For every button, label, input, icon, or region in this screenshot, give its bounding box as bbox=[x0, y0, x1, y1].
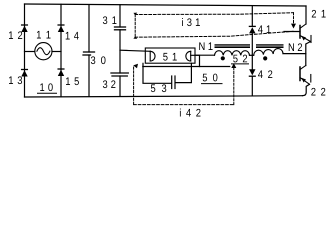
lamp 51 envelope bbox=[145, 48, 195, 63]
diode 13 bbox=[22, 69, 28, 71]
diode 14 bbox=[58, 24, 64, 26]
label N2 winding bbox=[289, 43, 302, 51]
wire node A to lamp left electrode bbox=[120, 50, 150, 51]
dashed loop i31 right bbox=[293, 13, 295, 25]
wire junction to diode 42 bbox=[251, 55, 253, 69]
node dot N1 polarity bbox=[221, 56, 225, 60]
arrow i31 pointing down at Q21 base bbox=[291, 24, 296, 29]
circuit schematic: fluorescent lamp inverter ballast patent figure bbox=[0, 0, 336, 120]
wire C32 bottom lead bbox=[119, 76, 121, 96]
dashed loop i42 left bbox=[133, 67, 135, 105]
wire N1-N2 junction bbox=[250, 54, 254, 56]
label 50 (lamp block) bbox=[203, 74, 218, 82]
label 11 bbox=[37, 31, 51, 39]
tick Q22 emitter terminal bbox=[310, 75, 312, 83]
arrow i42 left pointing up-left bbox=[133, 64, 138, 69]
diode 15 bbox=[58, 68, 64, 70]
label 51 bbox=[163, 53, 177, 61]
arrow i31 top-left corner bbox=[133, 13, 137, 16]
wire top rail down to Q21 collector bbox=[305, 6, 307, 24]
diode 41 bbox=[249, 25, 255, 27]
label 12 bbox=[9, 31, 22, 39]
label i31 current bbox=[182, 18, 200, 26]
arrow i42 right pointing up bbox=[231, 63, 236, 68]
diode 42 bbox=[249, 69, 255, 75]
wire lamp bottom to i42 arrow node bbox=[143, 66, 230, 68]
node dot N2 polarity bbox=[263, 56, 267, 60]
inductor N1 bbox=[195, 54, 215, 56]
dashed loop i31 bottom bbox=[135, 31, 293, 37]
wire AC left lead bbox=[25, 51, 35, 53]
wire bridge right branch bbox=[60, 4, 62, 97]
label 14 bbox=[66, 32, 79, 40]
capacitor 53 filament loop bbox=[143, 63, 171, 83]
diode 12 bbox=[22, 24, 28, 26]
transistor Q21 bbox=[300, 24, 306, 28]
wire bottom DC rail bbox=[25, 96, 303, 97]
label 52 (transformer) bbox=[233, 55, 247, 63]
label 30 bbox=[91, 56, 106, 64]
label 31 bbox=[103, 16, 117, 24]
tick Q21 emitter terminal bbox=[310, 36, 312, 43]
label 53 bbox=[151, 84, 166, 92]
label 32 bbox=[103, 80, 116, 88]
label 22 bbox=[311, 88, 325, 96]
wire C31 to C32 bbox=[119, 30, 121, 73]
arrow i31 bottom-left corner bbox=[133, 36, 137, 39]
label 21 bbox=[312, 10, 326, 18]
label N1 winding bbox=[199, 42, 212, 50]
capacitor C32 bbox=[111, 72, 128, 74]
label 41 bbox=[258, 25, 271, 33]
wire Q21 emitter to Q22 collector (midpoint) bbox=[306, 42, 311, 66]
wire top rail to diode 41 bbox=[251, 6, 253, 27]
dashed loop i42 bottom bbox=[134, 104, 234, 106]
dashed loop i42 right bbox=[233, 68, 235, 105]
capacitor C30 top lead bbox=[88, 5, 90, 52]
capacitor C31 top lead bbox=[119, 5, 121, 27]
wire Q22 emitter to bottom rail bbox=[303, 84, 310, 95]
dashed loop i31 top bbox=[135, 13, 294, 15]
wire diode 42 to bottom rail bbox=[251, 76, 253, 96]
transistor Q22 bbox=[300, 66, 306, 70]
wire lamp right pin down bbox=[191, 55, 200, 66]
AC source 11 bbox=[35, 43, 52, 60]
label i42 current bbox=[180, 109, 201, 117]
label 13 bbox=[9, 76, 22, 84]
wire bridge left branch bbox=[24, 4, 26, 97]
wire top DC rail bbox=[25, 4, 307, 6]
label 10 (block) bbox=[40, 83, 53, 91]
wire AC right lead bbox=[52, 51, 61, 53]
label 42 bbox=[258, 70, 272, 78]
label 15 bbox=[66, 77, 79, 85]
arrow Q22 emitter bbox=[301, 78, 306, 83]
inductor N2 bbox=[254, 49, 283, 56]
wire C30 bottom lead bbox=[88, 55, 90, 96]
wire diode 41 to winding junction bbox=[251, 33, 253, 55]
lamp 51 right electrode bbox=[190, 51, 192, 61]
wire Q21 base stub bbox=[284, 31, 300, 33]
arrow Q21 emitter bbox=[301, 36, 306, 41]
dashed loop i31 left bbox=[134, 15, 136, 38]
wire N2 right end to midpoint bbox=[283, 53, 306, 55]
lamp 51 left electrode bbox=[149, 51, 151, 61]
